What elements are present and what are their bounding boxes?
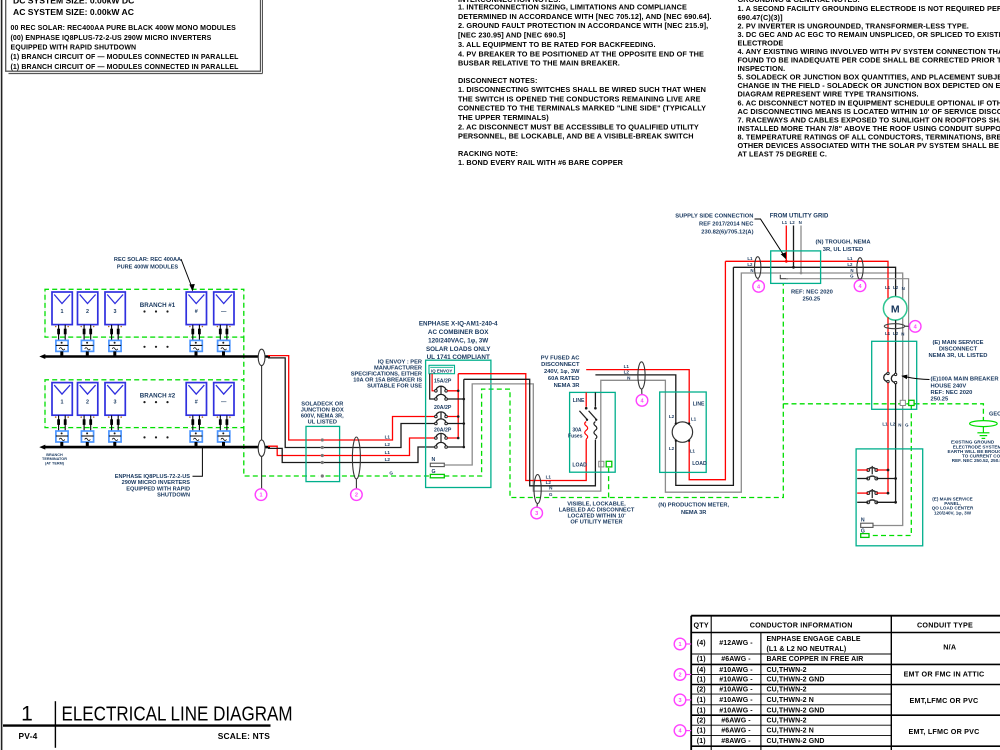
svg-text:L1: L1	[885, 285, 891, 290]
PV module 1 branch 1	[52, 292, 72, 325]
conduit run tag 4	[753, 281, 765, 293]
svg-text:REF: NEC 2020: REF: NEC 2020	[931, 390, 973, 396]
wire L2 disconnect to production meter	[595, 267, 733, 485]
wire L2 junction to combiner breaker	[324, 424, 436, 448]
wire L2 combiner to AC disconnect	[464, 379, 596, 486]
svg-text:L2: L2	[546, 480, 552, 485]
svg-text:L2: L2	[385, 442, 391, 447]
svg-text:N: N	[898, 422, 901, 427]
disconnect switch pole 2	[594, 392, 596, 406]
disconnect switch pole 1	[585, 392, 587, 406]
svg-text:N: N	[799, 220, 802, 225]
conduit on branch1 bus	[258, 349, 265, 365]
svg-text:G: G	[905, 422, 909, 427]
svg-text:15A/2P: 15A/2P	[434, 378, 452, 384]
svg-text:2: 2	[678, 673, 681, 679]
svg-text:L1: L1	[546, 475, 552, 480]
svg-text:3: 3	[114, 309, 117, 315]
svg-text:(1): (1)	[697, 728, 706, 735]
production meter box	[660, 392, 707, 472]
svg-text:PV-4: PV-4	[19, 731, 38, 741]
leader to 100A breaker	[906, 377, 930, 380]
svg-text:UL 1741 COMPLIANT: UL 1741 COMPLIANT	[427, 354, 490, 361]
enphase micro inverter branch 1 module 1	[56, 340, 68, 351]
svg-text:#10AWG -: #10AWG -	[719, 677, 753, 684]
svg-text:(4): (4)	[697, 640, 706, 647]
svg-text:250.25: 250.25	[803, 296, 822, 302]
svg-text:SOLAR LOADS ONLY: SOLAR LOADS ONLY	[426, 346, 491, 353]
svg-text:3: 3	[114, 400, 117, 406]
disconnect N lug	[900, 400, 905, 405]
svg-text:G: G	[389, 471, 393, 476]
PV branch #1 bus (Engage cable)	[44, 355, 271, 358]
svg-text:[NEC 230.95] AND [NEC 690.5]: [NEC 230.95] AND [NEC 690.5]	[458, 31, 566, 40]
micro inverter leads branch 2 module 5	[219, 415, 221, 431]
svg-text:#12AWG -: #12AWG -	[719, 640, 753, 647]
svg-text:(N) PRODUCTION METER,: (N) PRODUCTION METER,	[658, 503, 729, 509]
svg-text:ENPHASE X-IQ-AM1-240-4: ENPHASE X-IQ-AM1-240-4	[419, 321, 498, 328]
wire L2 to M	[733, 267, 895, 296]
svg-text:240V, 1φ, 3W: 240V, 1φ, 3W	[544, 369, 580, 375]
svg-text:00 REC SOLAR: REC400AA PURE BL: 00 REC SOLAR: REC400AA PURE BLACK 400W M…	[11, 25, 237, 32]
svg-text:EQUIPPED WITH RAPID: EQUIPPED WITH RAPID	[126, 486, 190, 492]
svg-text:N: N	[901, 331, 904, 336]
svg-text:Fuses: Fuses	[568, 433, 583, 439]
svg-text:LOAD: LOAD	[572, 463, 587, 469]
horizontal conduit below M	[884, 324, 904, 329]
enphase micro inverter branch 1 module 4	[190, 340, 202, 351]
svg-text:2: 2	[355, 493, 358, 499]
micro inverter leads branch 1 module 1	[58, 325, 60, 341]
svg-text:3: 3	[678, 698, 681, 704]
wire L2 branch1 bus to junction box	[268, 358, 321, 448]
svg-text:CU,THWN-2 N: CU,THWN-2 N	[767, 697, 814, 704]
wire L1 branch1 bus to junction box	[268, 356, 321, 440]
svg-text:N: N	[432, 457, 436, 463]
ground wire: branch 2 bonding rectangle	[45, 380, 244, 428]
svg-text:LOAD: LOAD	[692, 461, 707, 467]
svg-text:GEC: GEC	[989, 411, 1000, 417]
ground wire: branches to junction box	[244, 337, 319, 476]
svg-text:L2: L2	[790, 220, 796, 225]
svg-text:L2: L2	[385, 457, 391, 462]
disconnect N lug	[599, 461, 604, 467]
svg-text:1: 1	[259, 493, 262, 499]
svg-text:RACKING NOTE:: RACKING NOTE:	[458, 149, 518, 158]
svg-text:(1) BRANCH CIRCUIT OF — MODULE: (1) BRANCH CIRCUIT OF — MODULES CONNECTE…	[11, 64, 240, 71]
PV module 3 branch 2	[105, 383, 125, 416]
svg-text:CU,THWN-2 N: CU,THWN-2 N	[767, 728, 814, 735]
PV branch #2 bus (Engage cable)	[44, 446, 271, 449]
svg-text:IQ ENVOY: IQ ENVOY	[431, 368, 452, 373]
svg-text:#8AWG -: #8AWG -	[721, 738, 751, 745]
svg-text:1: 1	[61, 309, 64, 315]
svg-text:1: 1	[21, 702, 33, 725]
svg-text:L2: L2	[669, 446, 675, 451]
svg-text:SHUTDOWN: SHUTDOWN	[157, 493, 190, 499]
svg-text:BARE COPPER IN FREE AIR: BARE COPPER IN FREE AIR	[767, 656, 864, 663]
wire L2 branch2 bus to junction box	[268, 448, 321, 462]
wire L1 disconnect to production meter	[586, 261, 725, 479]
PV module 3 branch 1	[105, 292, 125, 325]
ground wire: junction box to combiner G bar	[326, 475, 431, 477]
svg-text:SUITABLE FOR USE: SUITABLE FOR USE	[367, 384, 422, 390]
svg-text:N/A: N/A	[943, 642, 956, 651]
svg-text:CU,THWN-2 GND: CU,THWN-2 GND	[767, 677, 825, 684]
enphase micro inverter branch 2 module 1	[56, 431, 68, 442]
svg-text:LINE: LINE	[693, 401, 705, 407]
wires M to main disconnect	[887, 317, 889, 373]
svg-text:UL LISTED: UL LISTED	[308, 419, 337, 425]
svg-text:LINE: LINE	[573, 398, 585, 404]
svg-text:CONDUIT TYPE: CONDUIT TYPE	[917, 620, 973, 629]
svg-text:N: N	[861, 518, 865, 524]
svg-text:(1): (1)	[697, 677, 706, 684]
micro inverter leads branch 2 module 1	[58, 415, 60, 431]
micro inverter leads branch 2 module 2	[83, 415, 85, 431]
micro inverter leads branch 1 module 4	[192, 325, 194, 341]
svg-text:L2: L2	[747, 262, 753, 267]
wire L1 junction to combiner breaker	[324, 417, 436, 441]
enphase micro inverter branch 1 module 2	[81, 340, 93, 351]
svg-text:(N) TROUGH, NEMA: (N) TROUGH, NEMA	[815, 240, 871, 246]
svg-text:#6AWG -: #6AWG -	[721, 717, 751, 724]
conduit disconnect to meter	[638, 362, 645, 389]
svg-text:20A/2P: 20A/2P	[434, 405, 452, 411]
conduit run tag 1	[255, 489, 267, 501]
svg-text:L1: L1	[782, 220, 788, 225]
svg-text:4. PV BREAKER TO BE POSITIONED: 4. PV BREAKER TO BE POSITIONED AT THE OP…	[458, 49, 704, 58]
svg-text:#10AWG -: #10AWG -	[719, 686, 753, 693]
svg-text:—: —	[221, 309, 227, 315]
enphase micro inverter branch 1 module 5	[218, 340, 230, 351]
conduit run tag 1	[674, 638, 686, 650]
combiner neutral wire	[444, 273, 902, 526]
micro inverter leads branch 1 module 5	[219, 325, 221, 341]
conductor schedule table	[691, 615, 1000, 617]
ground wire: branch 1 bonding rectangle	[45, 289, 244, 337]
svg-text:PURE 400W MODULES: PURE 400W MODULES	[117, 264, 178, 270]
combiner L1 output bus	[447, 374, 458, 438]
svg-text:L1: L1	[885, 331, 891, 336]
trough ground clamp	[780, 275, 788, 279]
svg-text:(L1 & L2 NO NEUTRAL): (L1 & L2 NO NEUTRAL)	[767, 646, 847, 653]
svg-text:2: 2	[86, 309, 89, 315]
sheet border	[1, 0, 3, 750]
svg-text:1. INTERCONNECTION SIZING, LIM: 1. INTERCONNECTION SIZING, LIMITATIONS A…	[458, 3, 687, 12]
svg-text:(1): (1)	[697, 707, 706, 714]
svg-text:60A RATED: 60A RATED	[548, 376, 580, 382]
micro inverter leads branch 2 module 4	[192, 415, 194, 431]
enphase micro inverter branch 1 module 3	[109, 340, 121, 351]
conduit combiner to disconnect	[534, 475, 541, 504]
svg-text:(E)100A MAIN BREAKER TO: (E)100A MAIN BREAKER TO	[931, 377, 1000, 383]
disconnect G lug	[606, 461, 612, 467]
svg-text:(2): (2)	[697, 686, 706, 693]
svg-text:N: N	[902, 286, 905, 291]
svg-text:L1: L1	[385, 435, 391, 440]
svg-text:(1): (1)	[697, 656, 706, 663]
svg-text:120/240VAC, 1φ, 3W: 120/240VAC, 1φ, 3W	[428, 337, 488, 344]
PV module 2 branch 2	[78, 383, 98, 416]
breaker stub wires	[857, 469, 868, 471]
schedule row tags	[685, 643, 691, 645]
conduit on branch2 bus	[258, 440, 265, 456]
svg-text:L2: L2	[669, 414, 675, 419]
utility grid drop L1	[785, 226, 787, 262]
svg-text:AC SYSTEM SIZE: 0.00kW AC: AC SYSTEM SIZE: 0.00kW AC	[13, 7, 134, 17]
svg-text:DISCONNECT: DISCONNECT	[541, 362, 580, 368]
main service disconnect box	[872, 341, 917, 409]
svg-text:L2: L2	[847, 262, 853, 267]
conduit run tag 3	[674, 694, 686, 706]
svg-text:L1: L1	[691, 417, 697, 422]
utility grid drop N	[800, 226, 802, 274]
production meter dial	[672, 422, 692, 442]
svg-text:#10AWG -: #10AWG -	[719, 667, 753, 674]
panel breaker PV backfeed	[868, 491, 876, 493]
svg-text:(E) MAIN SERVICE: (E) MAIN SERVICE	[932, 340, 983, 346]
svg-text:DISCONNECT NOTES:: DISCONNECT NOTES:	[458, 76, 538, 85]
svg-text:CONDUCTOR INFORMATION: CONDUCTOR INFORMATION	[750, 620, 853, 629]
svg-text:L1: L1	[385, 450, 391, 455]
conduit run tag 2	[351, 489, 363, 501]
svg-text:AT LEAST 75 DEGREE C.: AT LEAST 75 DEGREE C.	[738, 150, 828, 159]
svg-text:DETERMINED IN ACCORDANCE WITH: DETERMINED IN ACCORDANCE WITH [NEC 705.1…	[458, 12, 712, 21]
wire L1 branch2 bus to junction box	[268, 446, 321, 455]
svg-text:#10AWG -: #10AWG -	[719, 707, 753, 714]
svg-text:N: N	[850, 268, 853, 273]
svg-text:HOUSE 240V: HOUSE 240V	[931, 383, 967, 389]
svg-text:2. AC DISCONNECT MUST BE ACCES: 2. AC DISCONNECT MUST BE ACCESSIBLE TO Q…	[458, 122, 699, 131]
svg-text:EMT,LFMC OR PVC: EMT,LFMC OR PVC	[910, 696, 979, 705]
micro inverter leads branch 2 module 3	[111, 415, 113, 431]
svg-text:L1: L1	[690, 448, 696, 453]
svg-text:SCALE: NTS: SCALE: NTS	[218, 731, 270, 741]
micro inverter leads branch 1 module 3	[111, 325, 113, 341]
svg-text:G: G	[549, 492, 553, 497]
svg-text:(AT TERM): (AT TERM)	[45, 461, 65, 465]
combiner L2 output bus	[447, 379, 463, 447]
svg-text:290W MICRO INVERTERS: 290W MICRO INVERTERS	[122, 480, 191, 486]
conduit run tag 4	[909, 321, 921, 333]
utility meter M	[883, 297, 907, 321]
svg-text:EMT, LFMC OR PVC: EMT, LFMC OR PVC	[908, 727, 979, 736]
svg-text:2. GROUND FAULT PROTECTION IN: 2. GROUND FAULT PROTECTION IN ACCORDANCE…	[458, 21, 708, 30]
enphase micro inverter branch 2 module 2	[81, 431, 93, 442]
svg-text:230.82(6)/705.12(A): 230.82(6)/705.12(A)	[701, 229, 753, 235]
svg-text:(1): (1)	[697, 697, 706, 704]
PV module 2 branch 1	[78, 292, 98, 325]
svg-text:#: #	[195, 309, 198, 315]
main service panel box	[856, 449, 923, 546]
svg-text:L1: L1	[747, 256, 753, 261]
IQ envoy leads	[432, 374, 436, 391]
svg-text:BRANCH #2: BRANCH #2	[140, 393, 176, 400]
ground wire: trough to main service disconnect and GEC	[783, 404, 983, 421]
svg-text:NEMA 3R, UL LISTED: NEMA 3R, UL LISTED	[929, 353, 988, 359]
svg-text:20A/2P: 20A/2P	[434, 428, 452, 434]
svg-text:1. BOND EVERY RAIL WITH #6 BAR: 1. BOND EVERY RAIL WITH #6 BARE COPPER	[458, 158, 624, 167]
svg-text:G: G	[850, 274, 854, 279]
svg-text:L1: L1	[882, 421, 888, 426]
panel breaker (E) loads	[868, 468, 876, 470]
svg-text:PV FUSED AC: PV FUSED AC	[541, 355, 581, 361]
svg-text:REC SOLAR: REC 400AA: REC SOLAR: REC 400AA	[114, 257, 181, 263]
svg-text:L2: L2	[893, 285, 899, 290]
svg-text:REF. NEC 250.52, 250.53: REF. NEC 250.52, 250.53	[952, 458, 1000, 463]
svg-text:120/240V, 1φ, 3W: 120/240V, 1φ, 3W	[934, 510, 972, 515]
svg-text:L2: L2	[624, 370, 630, 375]
PV module # branch 1	[186, 292, 206, 325]
svg-text:EQUIPPED WITH RAPID SHUTDOWN: EQUIPPED WITH RAPID SHUTDOWN	[11, 45, 137, 52]
svg-text:BRANCH #1: BRANCH #1	[140, 302, 176, 309]
svg-text:L2: L2	[890, 421, 896, 426]
svg-text:2: 2	[86, 400, 89, 406]
wire L1 branch2 junction to combiner breaker	[324, 438, 436, 456]
svg-text:(4): (4)	[697, 667, 706, 674]
svg-text:L1: L1	[847, 256, 853, 261]
conduit run tag 4	[674, 725, 686, 737]
svg-text:CU,THWN-2 GND: CU,THWN-2 GND	[767, 707, 825, 714]
svg-text:250.25: 250.25	[931, 397, 950, 403]
svg-text:REF 2017/2014 NEC: REF 2017/2014 NEC	[699, 221, 754, 227]
svg-text:#6AWG -: #6AWG -	[721, 656, 751, 663]
svg-text:L2: L2	[893, 331, 899, 336]
svg-text:PERSONNEL, BE LOCKABLE, AND BE: PERSONNEL, BE LOCKABLE, AND BE A VISIBLE…	[458, 132, 694, 141]
enphase micro inverter branch 2 module 5	[218, 431, 230, 442]
svg-text:NEMA 3R: NEMA 3R	[681, 510, 706, 516]
svg-text:THE UPPER TERMINALS): THE UPPER TERMINALS)	[458, 113, 549, 122]
conduit from branch1 to branch2	[261, 357, 263, 448]
soladeck junction box	[306, 426, 340, 481]
PV module &#8212; branch 2	[214, 383, 234, 416]
svg-text:ENPHASE IQ8PLUS-72-2-US: ENPHASE IQ8PLUS-72-2-US	[115, 474, 190, 480]
svg-text:DC SYSTEM SIZE: 0.00kW DC: DC SYSTEM SIZE: 0.00kW DC	[13, 0, 134, 6]
svg-text:FROM UTILITY GRID: FROM UTILITY GRID	[770, 214, 829, 220]
svg-text:CU,THWN-2: CU,THWN-2	[767, 686, 807, 693]
svg-text:ENPHASE ENGAGE CABLE: ENPHASE ENGAGE CABLE	[767, 636, 861, 643]
svg-text:—: —	[221, 400, 227, 406]
wire G trough to main disconnect	[786, 279, 909, 342]
svg-text:CU,THWN-2 GND: CU,THWN-2 GND	[767, 738, 825, 745]
micro inverter leads branch 1 module 2	[83, 325, 85, 341]
svg-text:CU,THWN-2: CU,THWN-2	[767, 717, 807, 724]
enphase AC combiner box	[426, 360, 491, 487]
wires disconnect to panel	[887, 383, 889, 493]
ground wire: combiner G bar to AC disconnect / production meter run	[444, 283, 783, 497]
100A main breaker	[884, 373, 888, 381]
conduit run tag 4	[636, 395, 648, 407]
svg-text:OF UTILITY METER: OF UTILITY METER	[570, 520, 622, 526]
svg-text:1. DISCONNECTING SWITCHES SHAL: 1. DISCONNECTING SWITCHES SHALL BE WIRED…	[458, 85, 706, 94]
svg-text:3. ALL EQUIPMENT TO BE RATED F: 3. ALL EQUIPMENT TO BE RATED FOR BACKFEE…	[458, 40, 656, 49]
svg-text:ELECTRICAL LINE DIAGRAM: ELECTRICAL LINE DIAGRAM	[62, 702, 293, 725]
svg-text:#: #	[195, 400, 198, 406]
system size note box	[6, 0, 261, 71]
ground wire: main service disconnect to panel G bar	[869, 405, 911, 536]
PV fused AC disconnect box	[570, 392, 616, 472]
svg-text:(2): (2)	[697, 717, 706, 724]
svg-text:L1: L1	[624, 364, 630, 369]
PV module # branch 2	[186, 383, 206, 416]
conduit run tag 4	[854, 280, 866, 292]
PV module &#8212; branch 1	[214, 292, 234, 325]
svg-text:THE SWITCH IS OPENED THE CONDU: THE SWITCH IS OPENED THE CONDUCTORS REMA…	[458, 94, 701, 103]
svg-text:NEMA 3R: NEMA 3R	[554, 383, 581, 389]
wire L1 combiner to AC disconnect	[458, 374, 586, 481]
svg-text:QTY: QTY	[694, 620, 709, 629]
conduit junction to combiner	[352, 437, 360, 479]
wire L1 meter riser to trough to M	[725, 261, 888, 299]
conduit trough to M meter	[857, 258, 863, 280]
utility grid drop L2	[793, 226, 795, 268]
disconnect G lug	[909, 400, 914, 405]
svg-text:BUSBAR RELATIVE TO THE MAIN BR: BUSBAR RELATIVE TO THE MAIN BREAKER.	[458, 59, 620, 68]
enphase micro inverter branch 2 module 4	[190, 431, 202, 442]
svg-text:EMT OR FMC IN ATTIC: EMT OR FMC IN ATTIC	[904, 670, 985, 679]
svg-text:REF: NEC 2020: REF: NEC 2020	[791, 289, 833, 295]
svg-text:DISCONNECT: DISCONNECT	[939, 347, 978, 353]
svg-text:SUPPLY SIDE CONNECTION: SUPPLY SIDE CONNECTION	[675, 213, 753, 219]
svg-text:CONNECTED TO THE TERMINALS MAR: CONNECTED TO THE TERMINALS MARKED "LINE …	[458, 104, 706, 113]
conduit run tag 3	[531, 507, 543, 519]
wire L2 branch2 junction to combiner breaker	[324, 447, 436, 463]
svg-text:(1): (1)	[697, 738, 706, 745]
conduit meter to trough	[755, 257, 761, 279]
svg-text:3R, UL LISTED: 3R, UL LISTED	[823, 247, 863, 253]
svg-text:3: 3	[535, 511, 538, 517]
trough box	[771, 251, 821, 284]
GEC ground electrode	[970, 421, 998, 427]
conduit run tag 2	[674, 669, 686, 681]
PV module 1 branch 2	[52, 383, 72, 416]
enphase micro inverter branch 2 module 3	[109, 431, 121, 442]
svg-text:#10AWG -: #10AWG -	[719, 697, 753, 704]
svg-text:1: 1	[678, 642, 681, 648]
svg-text:(00) ENPHASE IQ8PLUS-72-2-US 2: (00) ENPHASE IQ8PLUS-72-2-US 290W MICRO …	[11, 35, 212, 42]
IQ Envoy	[429, 365, 455, 373]
svg-text:#6AWG -: #6AWG -	[721, 728, 751, 735]
svg-text:N: N	[750, 268, 753, 273]
ground wire: riser to AC disconnect G lug	[608, 466, 610, 498]
svg-text:1: 1	[61, 400, 64, 406]
svg-text:(1) BRANCH CIRCUIT OF — MODULE: (1) BRANCH CIRCUIT OF — MODULES CONNECTE…	[11, 54, 240, 61]
svg-text:M: M	[891, 303, 900, 315]
svg-text:CU,THWN-2: CU,THWN-2	[767, 667, 807, 674]
svg-text:AC COMBINER BOX: AC COMBINER BOX	[428, 329, 489, 336]
